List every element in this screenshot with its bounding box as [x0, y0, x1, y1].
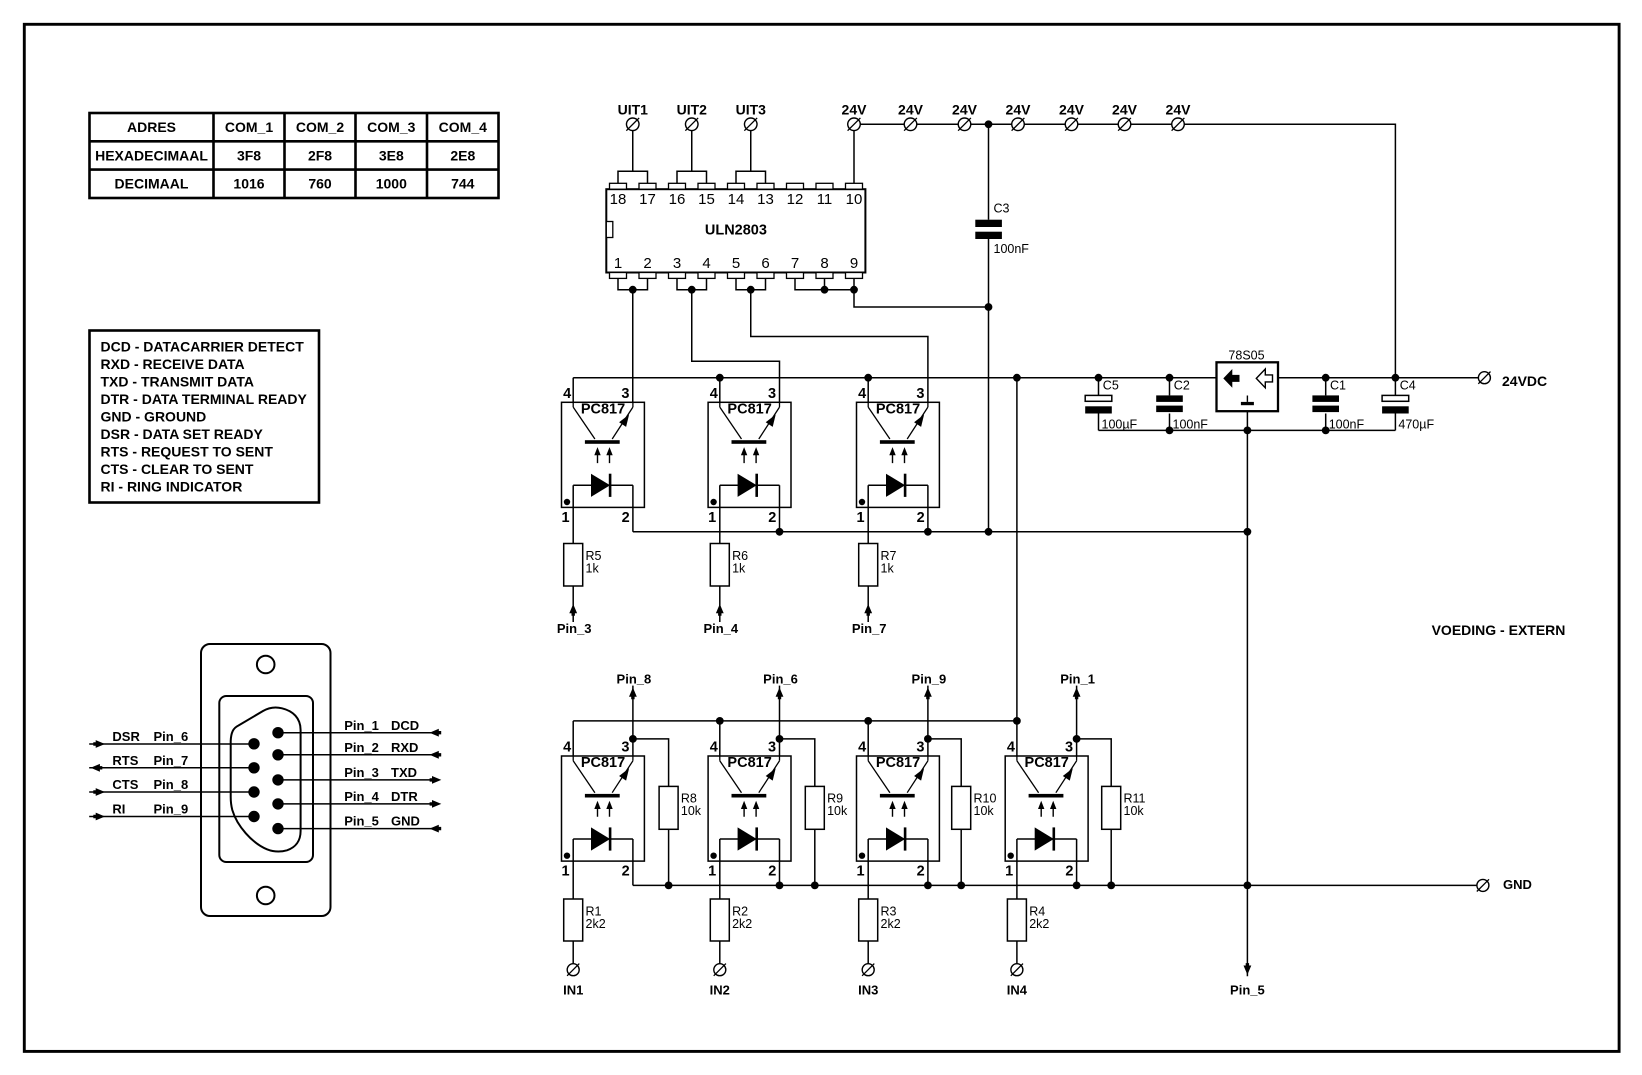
wire R8 to GND net	[668, 829, 670, 885]
svg-text:760: 760	[308, 176, 332, 192]
U1 pad pin 17	[639, 183, 656, 189]
wire R8 to OK4 pin3	[633, 739, 669, 787]
wire Pin_2 RXD	[278, 754, 439, 756]
optocoupler OK5 PC817	[708, 740, 791, 880]
svg-text:C3: C3	[994, 201, 1010, 215]
U1 pad pin 16	[669, 183, 686, 189]
svg-text:RTS: RTS	[112, 753, 138, 768]
svg-text:IN2: IN2	[710, 982, 730, 997]
U1 pin1 notch	[606, 222, 613, 238]
junction GND net / OK7 pin2	[1073, 882, 1081, 890]
svg-text:10k: 10k	[1124, 804, 1145, 818]
U1 pad pin 14	[728, 183, 745, 189]
wire UIT2 stem	[691, 124, 693, 171]
svg-text:1k: 1k	[732, 561, 746, 575]
wire UIT1 stem	[632, 124, 634, 171]
svg-text:1000: 1000	[376, 176, 407, 192]
wire U1 pins 7-8-9 bridge	[795, 278, 854, 289]
wire Pin_3 TXD	[278, 779, 439, 781]
svg-text:ULN2803: ULN2803	[705, 222, 767, 238]
svg-text:1016: 1016	[233, 176, 264, 192]
U1 pad pin 8	[816, 273, 833, 279]
resistor R4 2k2	[1007, 899, 1049, 941]
optocoupler OK4 PC817	[561, 740, 644, 880]
svg-text:COM_2: COM_2	[296, 119, 344, 135]
arrow Pin_9	[924, 688, 932, 700]
terminal 24V	[958, 118, 971, 131]
svg-text:DTR: DTR	[391, 789, 418, 804]
terminal GND	[1477, 879, 1489, 891]
arrow Pin_7	[864, 604, 872, 616]
junction GND net / R10	[957, 882, 965, 890]
junction cap ground line	[1244, 427, 1252, 435]
junction 24VDC rail / C4	[1392, 374, 1400, 382]
DB9 pin 2	[272, 749, 283, 760]
junction U1 pins 1-2	[629, 286, 637, 294]
wire R11 to GND net	[1110, 829, 1112, 885]
terminal IN4	[1011, 964, 1023, 976]
svg-text:Pin_8: Pin_8	[154, 777, 189, 792]
svg-text:2: 2	[643, 255, 651, 272]
optocoupler OK7 PC817	[1005, 740, 1088, 880]
svg-text:Pin_9: Pin_9	[154, 802, 189, 817]
svg-text:24VDC: 24VDC	[1502, 373, 1547, 389]
wire Pin_4 DTR	[278, 803, 439, 805]
arrow Pin_8	[629, 688, 637, 700]
wire U1 pins 18-17 bridge	[618, 171, 648, 183]
terminal UIT1	[626, 118, 639, 131]
wire capacitor ground line	[1099, 429, 1396, 431]
svg-text:10k: 10k	[974, 804, 995, 818]
arrow DCD	[430, 729, 442, 737]
U1 pad pin 4	[698, 273, 715, 279]
svg-text:2k2: 2k2	[732, 917, 752, 931]
wire OK2 pin1 to R6	[719, 507, 721, 543]
svg-text:RTS - REQUEST TO SENT: RTS - REQUEST TO SENT	[101, 443, 274, 459]
svg-text:TXD - TRANSMIT DATA: TXD - TRANSMIT DATA	[101, 373, 254, 389]
svg-text:13: 13	[757, 191, 774, 208]
svg-text:ADRES: ADRES	[127, 119, 176, 135]
wire U1 pins 3-4 bridge	[677, 278, 707, 289]
wire 5V to OK7 pin4 (vertical)	[1016, 378, 1018, 756]
junction C2 ground	[1166, 427, 1174, 435]
svg-text:Pin_6: Pin_6	[763, 671, 798, 686]
resistor R11 10k	[1102, 786, 1146, 829]
arrow DSR	[93, 740, 105, 748]
junction 5V rail	[1166, 374, 1174, 382]
resistor R7 1k	[859, 544, 897, 587]
svg-text:24V: 24V	[898, 101, 924, 117]
svg-text:Pin_2: Pin_2	[344, 740, 379, 755]
wire OK6 pin1 to R3	[867, 861, 869, 899]
svg-text:2k2: 2k2	[881, 917, 901, 931]
svg-text:18: 18	[610, 191, 627, 208]
junction OK5 pin4	[716, 717, 724, 725]
junction GND net	[1244, 882, 1252, 890]
arrow Pin_5	[1244, 963, 1252, 975]
DB9 pin 7	[248, 762, 259, 773]
resistor R3 2k2	[859, 899, 901, 941]
svg-text:IN1: IN1	[563, 982, 583, 997]
svg-text:470µF: 470µF	[1398, 418, 1434, 432]
wire OK7 pin2 to GND net	[1076, 861, 1078, 885]
junction OK6 pin3 / R10	[924, 735, 932, 743]
junction 5V rail	[1095, 374, 1103, 382]
svg-text:Pin_4: Pin_4	[703, 621, 738, 636]
wire OK5 pin1 to R2	[719, 861, 721, 899]
wire R2 to IN2	[719, 941, 721, 964]
junction 5V rail	[1013, 374, 1021, 382]
wire U1 pins 5-6 bridge	[736, 278, 766, 289]
wire U1 pins 1-2 bridge	[618, 278, 648, 289]
wire U1 pins3-4 to OK2 pin3	[692, 290, 780, 403]
svg-text:1k: 1k	[881, 561, 895, 575]
svg-text:Pin_1: Pin_1	[344, 718, 379, 733]
wire DSR Pin_6	[89, 743, 254, 745]
arrow RI	[93, 813, 105, 821]
wire R6 to Pin_4	[719, 586, 721, 622]
svg-text:COM_4: COM_4	[439, 119, 487, 135]
DB9 pin 9	[248, 811, 259, 822]
DB9 pin 4	[272, 798, 283, 809]
wire R3 to IN3	[867, 941, 869, 964]
optocoupler OK2 PC817	[708, 386, 791, 526]
wire OK2 pin2 to net	[779, 507, 781, 531]
svg-text:Pin_1: Pin_1	[1060, 671, 1095, 686]
svg-text:9: 9	[850, 255, 858, 272]
svg-text:DCD: DCD	[391, 718, 419, 733]
svg-text:DSR - DATA SET READY: DSR - DATA SET READY	[101, 426, 264, 442]
resistor R5 1k	[564, 544, 602, 587]
junction C3 bottom	[985, 528, 993, 536]
svg-text:6: 6	[761, 255, 769, 272]
wire U1 pin 10 to 24V	[853, 124, 855, 183]
wire Pin_6 to OK5 pin3	[779, 686, 781, 756]
terminal IN1	[567, 964, 579, 976]
wire R1 to IN1	[572, 941, 574, 964]
svg-text:IN4: IN4	[1007, 982, 1028, 997]
svg-text:Pin_7: Pin_7	[852, 621, 887, 636]
junction 24V rail / C3	[985, 120, 993, 128]
svg-text:17: 17	[639, 191, 656, 208]
svg-text:RI - RING INDICATOR: RI - RING INDICATOR	[101, 478, 243, 494]
wire OK7 pin1 to R4	[1016, 861, 1018, 899]
junction GND net / OK5 pin2	[776, 882, 784, 890]
terminal UIT3	[744, 118, 757, 131]
wire 78S05 GND down to Pin_5	[1246, 411, 1248, 976]
svg-text:VOEDING - EXTERN: VOEDING - EXTERN	[1432, 622, 1566, 638]
wire Pin_8 to OK4 pin3	[632, 686, 634, 756]
svg-text:COM_1: COM_1	[225, 119, 273, 135]
connector X1 DB9 female outer plate	[201, 644, 331, 916]
U1 pad pin 11	[816, 183, 833, 189]
DB9 pin 5	[272, 823, 283, 834]
wire RTS Pin_7	[89, 767, 254, 769]
svg-text:24V: 24V	[1112, 101, 1138, 117]
svg-text:DTR - DATA TERMINAL READY: DTR - DATA TERMINAL READY	[101, 391, 308, 407]
junction opto row1 pin2 net	[1244, 528, 1252, 536]
arrow CTS	[93, 788, 105, 796]
svg-text:HEXADECIMAAL: HEXADECIMAAL	[95, 147, 208, 163]
svg-text:2F8: 2F8	[308, 147, 332, 163]
svg-text:GND: GND	[1503, 877, 1532, 892]
svg-text:100nF: 100nF	[994, 242, 1030, 256]
wire U1 pins 16-15 bridge	[677, 171, 707, 183]
wire 5V rail to OK2 pin4	[719, 378, 721, 403]
resistor R8 10k	[659, 786, 702, 829]
svg-text:GND - GROUND: GND - GROUND	[101, 408, 207, 424]
svg-text:Pin_5: Pin_5	[1230, 982, 1265, 997]
junction U1 pins 5-6	[747, 286, 755, 294]
svg-text:RI: RI	[112, 802, 125, 817]
svg-text:C2: C2	[1174, 378, 1190, 392]
arrow GND	[430, 825, 442, 833]
wire OK4 pin1 to R1	[572, 861, 574, 899]
junction OK5 pin3 / R9	[776, 735, 784, 743]
U1 pad pin 5	[728, 273, 745, 279]
svg-text:C1: C1	[1330, 378, 1346, 392]
svg-text:100nF: 100nF	[1173, 418, 1209, 432]
svg-text:8: 8	[820, 255, 828, 272]
terminal IN3	[862, 964, 874, 976]
terminal 24V	[1172, 118, 1185, 131]
optocoupler OK6 PC817	[856, 740, 939, 880]
junction 5V rail	[864, 374, 872, 382]
resistor R9 10k	[805, 786, 848, 829]
svg-text:24V: 24V	[952, 101, 978, 117]
optocoupler OK1 PC817	[561, 386, 644, 526]
svg-text:RXD: RXD	[391, 740, 418, 755]
arrow Pin_6	[776, 688, 784, 700]
junction GND net / OK6 pin2	[924, 882, 932, 890]
svg-text:Pin_7: Pin_7	[154, 753, 189, 768]
junction OK4 pin3 / R8	[629, 735, 637, 743]
svg-text:UIT1: UIT1	[618, 101, 649, 117]
wire rail to OK5 pin4	[719, 721, 721, 756]
svg-text:Pin_6: Pin_6	[154, 729, 189, 744]
svg-text:Pin_8: Pin_8	[617, 671, 652, 686]
terminal 24V	[1065, 118, 1078, 131]
wire OK6 pin2 to GND net	[927, 861, 929, 885]
U1 pad pin 12	[787, 183, 804, 189]
junction OK6 pin4	[864, 717, 872, 725]
terminal IN2	[714, 964, 726, 976]
arrow Pin_4	[716, 604, 724, 616]
wire UIT3 stem	[750, 124, 752, 171]
U1 pad pin 13	[757, 183, 774, 189]
svg-text:5: 5	[732, 255, 740, 272]
svg-text:Pin_4: Pin_4	[344, 789, 379, 804]
table COM-port addresses	[90, 113, 499, 198]
wire U1 pins 14-13 bridge	[736, 171, 766, 183]
legend box RS232 signal names	[90, 331, 320, 503]
U1 pad pin 15	[698, 183, 715, 189]
wire Pin_1 to OK7 pin3	[1076, 686, 1078, 756]
terminal 24V	[1012, 118, 1025, 131]
svg-text:Pin_3: Pin_3	[557, 621, 592, 636]
svg-text:IN3: IN3	[858, 982, 878, 997]
arrow Pin_3	[569, 604, 577, 616]
junction 24VDC rail / C1	[1322, 374, 1330, 382]
capacitor C2 100nF	[1156, 378, 1208, 432]
terminal 24V	[848, 118, 861, 131]
wire opto row2 collector rail	[573, 721, 1017, 756]
svg-text:GND: GND	[391, 814, 420, 829]
optocoupler OK3 PC817	[856, 386, 939, 526]
wire 5V rail to OK3 pin4	[867, 378, 869, 403]
DB9 pin 3	[272, 774, 283, 785]
svg-text:1: 1	[614, 255, 622, 272]
wire 5V rail (78S05 output)	[573, 377, 1216, 379]
resistor R6 1k	[710, 544, 748, 587]
svg-text:15: 15	[698, 191, 715, 208]
terminal UIT2	[685, 118, 698, 131]
junction U1 pins 3-4	[688, 286, 696, 294]
svg-text:24V: 24V	[842, 101, 868, 117]
U1 pad pin 1	[610, 273, 627, 279]
svg-text:DCD - DATACARRIER DETECT: DCD - DATACARRIER DETECT	[101, 338, 305, 354]
wire opto row1 pin2 net	[633, 531, 1248, 533]
wire OK1 pin1 to R5	[572, 507, 574, 543]
wire R9 to GND net	[814, 829, 816, 885]
terminal 24V	[904, 118, 917, 131]
svg-text:24V: 24V	[1059, 101, 1085, 117]
resistor R1 2k2	[564, 899, 606, 941]
wire Pin_5 GND	[278, 828, 439, 830]
terminal 24VDC	[1478, 372, 1490, 384]
DB9 screw hole bottom	[257, 887, 275, 905]
capacitor C1 100nF	[1312, 378, 1364, 432]
arrow TXD	[430, 776, 442, 784]
svg-text:2E8: 2E8	[450, 147, 475, 163]
wire OK3 pin2 to net	[927, 507, 929, 531]
U1 pad pin 3	[669, 273, 686, 279]
svg-text:7: 7	[791, 255, 799, 272]
svg-text:Pin_3: Pin_3	[344, 765, 379, 780]
U1 pad pin 10	[846, 183, 863, 189]
junction GND net / R9	[811, 882, 819, 890]
U1 pad pin 7	[787, 273, 804, 279]
DB9 D-shell	[231, 708, 301, 852]
IC U1 ULN2803 body	[606, 189, 865, 272]
svg-text:UIT2: UIT2	[677, 101, 708, 117]
svg-text:12: 12	[787, 191, 804, 208]
wire OK5 pin2 to GND net	[779, 861, 781, 885]
svg-text:3F8: 3F8	[237, 147, 261, 163]
svg-text:CTS: CTS	[112, 777, 138, 792]
DB9 pin 6	[248, 738, 259, 749]
wire 5V rail to OK1 pin4	[572, 378, 574, 403]
junction OK2 pin2	[776, 528, 784, 536]
wire rail to OK6 pin4	[867, 721, 869, 756]
svg-text:24V: 24V	[1166, 101, 1192, 117]
DB9 pin 8	[248, 786, 259, 797]
svg-text:100µF: 100µF	[1102, 418, 1138, 432]
svg-text:4: 4	[702, 255, 710, 272]
arrow RXD	[430, 751, 442, 759]
junction 5V rail	[716, 374, 724, 382]
capacitor C3 100nF	[975, 124, 1029, 532]
wire R5 to Pin_3	[572, 586, 574, 622]
wire U1 pins1-2 to OK1 pin3	[632, 290, 634, 403]
wire R10 to GND net	[960, 829, 962, 885]
svg-text:16: 16	[669, 191, 686, 208]
svg-text:78S05: 78S05	[1228, 348, 1264, 362]
svg-text:TXD: TXD	[391, 765, 417, 780]
svg-text:UIT3: UIT3	[736, 101, 767, 117]
arrow Pin_1	[1073, 688, 1081, 700]
resistor R2 2k2	[710, 899, 752, 941]
svg-text:1k: 1k	[586, 561, 600, 575]
svg-text:RXD - RECEIVE DATA: RXD - RECEIVE DATA	[101, 356, 245, 372]
svg-text:24V: 24V	[1006, 101, 1032, 117]
DB9 inner bezel	[219, 696, 313, 862]
wire 24VDC rail (78S05 input)	[1278, 377, 1478, 379]
terminal 24V	[1118, 118, 1131, 131]
junction GND net / R11	[1107, 882, 1115, 890]
svg-text:2k2: 2k2	[586, 917, 606, 931]
svg-text:Pin_9: Pin_9	[912, 671, 947, 686]
svg-text:10: 10	[846, 191, 863, 208]
svg-text:744: 744	[451, 176, 475, 192]
junction GND net / R8	[665, 882, 673, 890]
svg-text:COM_3: COM_3	[367, 119, 415, 135]
wire R4 to IN4	[1016, 941, 1018, 964]
wire R7 to Pin_7	[867, 586, 869, 622]
junction C1 ground	[1322, 427, 1330, 435]
wire OK4 pin2 to GND net	[632, 861, 634, 885]
svg-text:10k: 10k	[827, 804, 848, 818]
junction OK3 pin2	[924, 528, 932, 536]
junction OK7 pin4 rail	[1013, 717, 1021, 725]
wire R9 to OK5 pin3	[780, 739, 815, 787]
svg-text:C5: C5	[1103, 378, 1119, 392]
U1 pad pin 18	[610, 183, 627, 189]
wire U1 pin9 to C3 net	[854, 290, 989, 307]
wire 24V rail top	[854, 124, 1395, 377]
U1 pad pin 9	[846, 273, 863, 279]
U1 pad pin 6	[757, 273, 774, 279]
wire R11 to OK7 pin3	[1077, 739, 1112, 787]
wire RI Pin_9	[89, 816, 254, 818]
wire GND net	[633, 884, 1477, 886]
DB9 pin 1	[272, 727, 283, 738]
wire U1 pins5-6 to OK3 pin3	[751, 290, 928, 403]
junction U1 pin 9	[850, 286, 858, 294]
svg-text:2k2: 2k2	[1029, 917, 1049, 931]
arrow RTS	[91, 764, 103, 772]
DB9 screw hole top	[257, 656, 275, 674]
wire OK1 pin2 to net	[632, 507, 634, 531]
svg-text:DECIMAAL: DECIMAAL	[115, 176, 189, 192]
junction OK7 pin3 / R11	[1073, 735, 1081, 743]
capacitor C5 100µF	[1085, 378, 1137, 432]
wire R10 to OK6 pin3	[928, 739, 961, 787]
regulator U2 78S05	[1217, 348, 1279, 411]
junction C3 top net	[985, 303, 993, 311]
arrow DTR	[430, 800, 442, 808]
svg-text:CTS - CLEAR TO SENT: CTS - CLEAR TO SENT	[101, 461, 254, 477]
svg-text:3: 3	[673, 255, 681, 272]
wire Pin_9 to OK6 pin3	[927, 686, 929, 756]
svg-text:10k: 10k	[681, 804, 702, 818]
svg-text:Pin_5: Pin_5	[344, 814, 379, 829]
svg-text:11: 11	[817, 191, 833, 208]
wire CTS Pin_8	[89, 791, 254, 793]
svg-text:100nF: 100nF	[1329, 418, 1365, 432]
svg-text:3E8: 3E8	[379, 147, 404, 163]
resistor R10 10k	[952, 786, 997, 829]
